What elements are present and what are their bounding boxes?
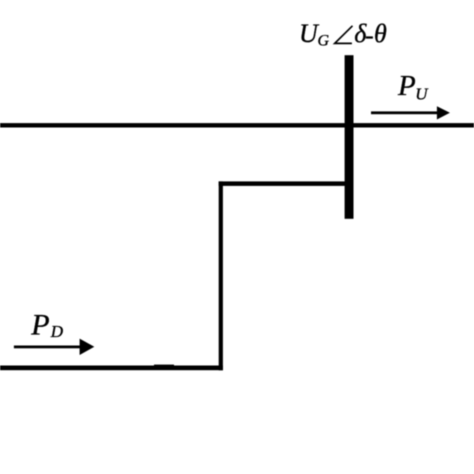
wire: downstream feeder line (bottom horizontal) bbox=[0, 366, 223, 371]
svg-text:-: - bbox=[365, 21, 374, 50]
svg-text:θ: θ bbox=[374, 19, 387, 48]
busbar U_G (thick vertical bar) bbox=[345, 55, 354, 219]
svg-text:G: G bbox=[318, 32, 330, 49]
svg-text:P: P bbox=[30, 309, 49, 342]
wire: step vertical segment bbox=[219, 181, 223, 370]
wire: upstream feeder line (full-width horizontal) bbox=[0, 123, 474, 127]
arrow P_U head bbox=[437, 106, 450, 119]
wire: branch horizontal from step corner to busbar bbox=[219, 181, 349, 186]
svg-text:P: P bbox=[397, 70, 416, 102]
arrow P_D head bbox=[80, 339, 95, 355]
angle symbol of U_G angle delta-theta bbox=[335, 26, 353, 44]
svg-text:U: U bbox=[415, 85, 429, 104]
arrow P_D (power flow arrow, shaft) bbox=[14, 346, 81, 349]
svg-text:D: D bbox=[50, 322, 64, 341]
arrow P_U (power flow arrow, shaft) bbox=[371, 111, 438, 114]
wire overlap nick on downstream line bbox=[154, 365, 174, 366]
